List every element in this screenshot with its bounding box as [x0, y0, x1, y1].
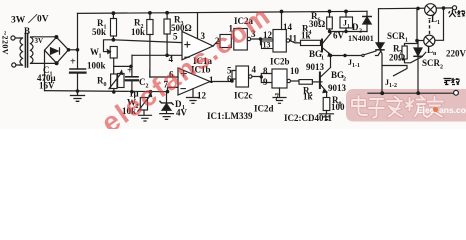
svg-text:14: 14	[283, 22, 293, 32]
svg-text:IC2b: IC2b	[270, 57, 290, 67]
svg-text:220V: 220V	[446, 49, 466, 59]
svg-text:IC2c: IC2c	[234, 91, 253, 101]
svg-text:2: 2	[343, 77, 346, 83]
svg-text:SCR: SCR	[422, 58, 441, 68]
svg-text:+: +	[127, 66, 133, 77]
svg-text:100: 100	[331, 102, 345, 112]
svg-text:1-2: 1-2	[389, 83, 397, 89]
svg-text:5: 5	[173, 32, 178, 42]
svg-text:0V: 0V	[37, 15, 49, 25]
svg-text:3W: 3W	[11, 16, 26, 26]
svg-text:10k: 10k	[131, 27, 145, 37]
svg-text:1N4001: 1N4001	[348, 34, 374, 43]
svg-text:1-1: 1-1	[352, 63, 360, 69]
svg-text:-: -	[428, 13, 431, 23]
svg-text:6: 6	[227, 74, 232, 84]
svg-text:4V: 4V	[176, 108, 188, 118]
svg-text:3V: 3V	[35, 37, 44, 45]
svg-text:1: 1	[99, 54, 102, 60]
svg-text:100k: 100k	[87, 61, 106, 71]
svg-text:+: +	[70, 57, 76, 68]
svg-text:11: 11	[289, 34, 298, 44]
svg-text:IC2d: IC2d	[254, 104, 274, 114]
svg-text:1: 1	[405, 38, 408, 44]
svg-text:SCR: SCR	[387, 31, 406, 41]
svg-text:2: 2	[440, 65, 443, 71]
svg-text:8: 8	[263, 66, 268, 76]
svg-text:1: 1	[347, 24, 350, 30]
svg-text:30Ω: 30Ω	[309, 19, 325, 29]
svg-text:9013: 9013	[328, 83, 347, 93]
svg-text:9: 9	[263, 77, 268, 87]
svg-text:B: B	[24, 26, 30, 36]
svg-text:20Ω: 20Ω	[389, 53, 405, 63]
svg-text:1: 1	[209, 75, 214, 85]
svg-text:50k: 50k	[92, 27, 106, 37]
svg-text:7: 7	[275, 92, 280, 102]
svg-text:4: 4	[252, 65, 257, 75]
svg-text:10: 10	[290, 66, 300, 76]
svg-text:IC2:CD4011: IC2:CD4011	[284, 113, 333, 123]
svg-text:12: 12	[197, 91, 207, 101]
svg-text:IC1:LM339: IC1:LM339	[207, 111, 253, 121]
svg-text:6V: 6V	[333, 31, 345, 41]
svg-text:1k: 1k	[301, 31, 311, 41]
svg-text:1: 1	[437, 20, 440, 26]
svg-text:D: D	[352, 22, 359, 32]
svg-text:1: 1	[321, 56, 324, 62]
svg-text:16V: 16V	[39, 81, 55, 91]
svg-text:13: 13	[263, 41, 271, 50]
svg-text:0: 0	[104, 82, 107, 88]
svg-text:Elec: Elec	[417, 105, 435, 115]
svg-text:1k: 1k	[303, 92, 313, 102]
svg-text:ans.com: ans.com	[439, 105, 466, 115]
svg-text:~220V: ~220V	[1, 31, 10, 55]
svg-text:9013: 9013	[306, 62, 325, 72]
